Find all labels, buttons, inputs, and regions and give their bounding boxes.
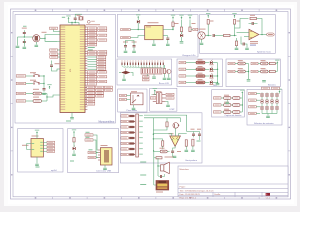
net label (port D out) — [104, 89, 112, 91]
wire jack l — [127, 95, 131, 97]
frame box: Boutons section — [226, 59, 280, 87]
wire feedback up — [235, 19, 249, 29]
LED D5 — [73, 146, 76, 150]
output net label SORTIE (rounded) — [267, 33, 275, 36]
wire IC2 stat — [163, 35, 168, 37]
S1 name — [30, 72, 36, 73]
frame column label 1 — [35, 10, 37, 11]
wire C10 gnd — [125, 49, 127, 51]
crystal Q1 — [79, 16, 83, 20]
VCC arrow mp3 — [35, 130, 39, 135]
wire usb shield gnd — [104, 165, 106, 168]
net label (XTAL alt) — [98, 53, 107, 55]
net text BATT — [140, 184, 146, 185]
header pin 7 — [129, 148, 135, 150]
resistor R42 — [233, 111, 240, 114]
wire led-rail 1 — [213, 68, 218, 70]
wire amp inner loop — [144, 118, 180, 122]
wire T1 down — [168, 74, 170, 78]
wire caps top — [126, 41, 135, 44]
junction — [248, 71, 249, 72]
ground usb — [103, 168, 107, 170]
IC4 right pin labels — [40, 141, 43, 144]
U7 value — [224, 109, 229, 110]
net label (port D low) — [87, 100, 95, 102]
wire cap lbl 1 — [221, 104, 224, 106]
resistor R60 — [160, 150, 167, 153]
R21 value — [198, 66, 203, 67]
frame box: Prise audio section — [118, 89, 147, 112]
usb d- text — [86, 137, 90, 138]
net label MISO — [166, 93, 174, 95]
resistor R11 — [33, 100, 42, 103]
capacitor C11 — [133, 43, 136, 48]
wire conf2 — [58, 56, 60, 58]
wire btn lbl 1 — [235, 71, 238, 73]
svg-text:Feuille :: Feuille : — [215, 194, 222, 196]
junction — [208, 35, 209, 36]
wire to op-amp + — [237, 32, 249, 34]
push button S1 — [33, 74, 40, 77]
LCD pin strip block — [141, 68, 162, 74]
amp input header strip J4 — [136, 114, 139, 157]
wire btn out2 0 — [268, 63, 269, 65]
wire crystal bottom — [69, 20, 80, 22]
junction — [157, 165, 158, 166]
ground R14 — [163, 78, 167, 80]
wire r64 gnd — [185, 146, 187, 149]
ground under C8 — [42, 93, 46, 95]
frame column label 7 — [241, 10, 243, 11]
LCD bus wires — [122, 65, 126, 68]
wire R4 top — [181, 20, 183, 27]
net label (port C alt) — [98, 80, 107, 82]
wire r65 gnd — [192, 146, 194, 150]
frame box: LED section — [177, 59, 222, 87]
ground mp3 — [35, 164, 39, 166]
net label (port D low) — [87, 103, 95, 105]
wire IC2 gnd — [153, 40, 155, 44]
wire cap mid 1 — [231, 104, 233, 106]
wire PB3 — [87, 63, 96, 65]
wire icsp l1 — [152, 94, 153, 96]
wire btn out 0 — [245, 63, 248, 65]
net label (port A) — [88, 34, 97, 36]
logo mark — [266, 193, 271, 196]
wire spk rail b — [157, 158, 159, 176]
net label (port A) — [88, 44, 97, 46]
net label BTN2 — [228, 70, 235, 72]
wire PB0 — [87, 56, 96, 58]
capacitor C23 — [171, 149, 174, 154]
VCC arrow icsp — [153, 88, 157, 93]
wire IC ground — [71, 113, 73, 118]
net label JACK R — [120, 98, 127, 100]
svg-text:Système micro: Système micro — [257, 50, 272, 53]
net label AMP1 — [121, 115, 128, 117]
wire vusb to IC2 — [130, 29, 144, 31]
net label AMP8 — [121, 153, 128, 155]
frame row label 1 — [11, 32, 12, 33]
wire capteur gnd stub — [226, 99, 228, 101]
wire c25 b — [162, 174, 165, 177]
resistor R63 — [162, 141, 164, 146]
wire mem lbl 1 — [256, 99, 260, 101]
header pin 1 — [129, 115, 135, 117]
junction — [43, 75, 44, 76]
net label TX/RX 0 — [16, 92, 26, 94]
battery BT1 — [156, 181, 169, 191]
VCC arrow mic — [206, 13, 210, 18]
IC U1 value text ATMEGA1284P — [86, 24, 100, 25]
net label (port D mid) — [96, 89, 104, 91]
net label USB GND — [88, 156, 96, 158]
R22 value — [198, 73, 203, 74]
gnd text usb — [70, 161, 74, 162]
frame row divider 1 — [11, 55, 14, 57]
wire mem lbl 3 — [256, 112, 260, 114]
net label BTN1 b — [251, 62, 258, 64]
VCC arrow r8 — [232, 13, 236, 18]
C10 value — [123, 42, 128, 43]
wire amp left rail — [152, 118, 154, 146]
net label VUSB — [121, 28, 131, 30]
net label AMP7 — [121, 148, 128, 150]
wire c21 stub — [193, 131, 195, 133]
resistor R6 — [207, 20, 209, 25]
resonator circle small — [87, 20, 94, 23]
ground R64 — [185, 150, 189, 152]
wire icsp gnd — [165, 102, 168, 105]
resistor R3 — [172, 22, 174, 27]
resistor R10 — [33, 92, 42, 95]
svg-text:Musicbox: Musicbox — [180, 169, 190, 171]
wire D2 down — [137, 23, 139, 30]
net label (port B) — [97, 66, 106, 68]
net label AMP3 — [121, 126, 128, 128]
wire R10 out — [42, 93, 48, 95]
J2 name — [156, 91, 162, 92]
VCC text left — [62, 17, 65, 18]
net label +BATT — [121, 36, 131, 38]
wire spk+ — [158, 165, 161, 167]
IC4 left pins — [32, 142, 35, 145]
op-amp IC3 MAX9812 — [249, 29, 259, 39]
wire lbl-res 0 — [186, 62, 196, 64]
IC3 text line2 — [250, 43, 258, 44]
net label (port D) — [87, 95, 95, 97]
ground under C12 — [166, 44, 170, 46]
resistor R62 — [166, 122, 168, 127]
wire trim left — [119, 72, 121, 74]
net text amp right — [197, 141, 201, 142]
wire r5-stat — [191, 29, 193, 31]
IC U1 ATmega1284P body — [60, 25, 85, 113]
wire btn lbl2 0 — [258, 63, 261, 65]
wire trim gnd — [123, 75, 125, 79]
wire trim right — [131, 73, 134, 77]
net label (port C) — [88, 83, 97, 85]
wire cap mid 0 — [231, 97, 233, 99]
wire lcd gnd stub — [147, 74, 149, 76]
wire usb dp — [93, 135, 98, 150]
svg-text:Haut-parleur: Haut-parleur — [186, 159, 198, 162]
wire rail to R60 — [153, 146, 160, 152]
MK1 name Microphone — [199, 29, 206, 30]
frame column label 2 — [69, 10, 71, 11]
capacitor C6 — [23, 39, 26, 44]
junction — [234, 35, 235, 36]
net label above memoire 2 — [272, 87, 280, 89]
wire serial join — [46, 94, 48, 102]
usb net text — [89, 149, 93, 150]
net label (port C) — [88, 78, 97, 80]
wire jack gnd — [133, 105, 135, 108]
ground icsp — [166, 105, 170, 107]
net label USB VCC — [88, 151, 96, 153]
net label USB D+ — [85, 134, 93, 136]
ground jack — [132, 108, 136, 110]
net label BTN1 — [228, 62, 235, 64]
resistor R31 — [269, 70, 275, 72]
ground memoire — [266, 116, 270, 118]
wire PB1 — [87, 58, 96, 60]
frame column divider 6 — [224, 9, 226, 12]
ground under C11 — [132, 51, 136, 53]
junction — [75, 22, 76, 23]
capacitor C5 — [23, 30, 26, 35]
wire buttons common — [43, 76, 45, 87]
C11 value — [132, 42, 137, 43]
header pin 4 — [129, 131, 135, 133]
net text SPK+ — [140, 162, 146, 163]
net label MP3 pin 1 — [47, 144, 55, 146]
IC3 text line3 — [250, 45, 256, 46]
junction — [138, 29, 139, 30]
resistor R7 — [224, 34, 231, 36]
net label (port D) — [87, 92, 95, 94]
wire c25 — [158, 175, 160, 178]
wire PB2 — [87, 61, 96, 63]
junction — [217, 75, 218, 76]
ground c16 — [245, 48, 249, 50]
VCC arrow buttons — [275, 60, 279, 65]
net label (port C alt) — [98, 71, 107, 73]
frame column divider 2 — [86, 9, 88, 12]
wire caps top — [187, 131, 200, 133]
wire mic gnd — [201, 39, 203, 42]
net label (port B) — [97, 68, 106, 70]
schematic frame outer border — [11, 9, 291, 199]
C2 value 22p — [77, 15, 81, 16]
wire op-amp out — [260, 34, 267, 36]
net label AMP4 — [121, 131, 128, 133]
wire spk rail a — [153, 150, 155, 185]
IC2 name MCP73831 — [148, 22, 159, 23]
wire lbl-res 1 — [186, 68, 196, 70]
D12 name — [210, 78, 214, 79]
net label CAP3 — [213, 111, 221, 113]
ground C23 — [173, 156, 177, 158]
net label (port A) — [88, 32, 97, 34]
wire reset to IC — [54, 30, 61, 32]
net text SPK- — [140, 175, 146, 176]
junction — [71, 22, 72, 23]
wire res-led 1 — [205, 68, 209, 70]
junction — [217, 82, 218, 83]
resistor R21 (dark pill) — [196, 68, 205, 71]
wire cap out 2 — [240, 111, 242, 113]
wire mem lbl 0 — [256, 93, 260, 95]
wire vcc icsp — [155, 93, 157, 95]
junction — [44, 38, 45, 39]
wire resonator left — [18, 36, 33, 38]
ground led usb — [72, 154, 76, 156]
net label MP3 pin 3 — [47, 150, 55, 152]
wire lbl-res 2 — [186, 75, 196, 77]
net label (port A alt) — [98, 39, 107, 41]
ground capteur row1 — [226, 102, 230, 104]
net label (port C) — [88, 73, 97, 75]
frame column divider 3 — [121, 9, 123, 12]
wire cap mid 2 — [231, 111, 233, 113]
ground left of resonator — [16, 46, 20, 48]
wire vbus — [73, 134, 75, 137]
net label AMP6 — [121, 142, 128, 144]
wire R6 down — [207, 24, 209, 35]
capacitor C21 — [192, 132, 195, 137]
header pin 5 — [129, 137, 135, 139]
frame column divider 1 — [52, 9, 54, 12]
wire R5 top — [189, 20, 191, 27]
push button S2 — [33, 81, 40, 84]
wire mp3 vcc — [36, 135, 38, 139]
wire C11 gnd — [133, 49, 135, 51]
amplifier IC5 LM386 (triangle) — [170, 136, 181, 146]
wire mic out — [205, 35, 211, 37]
wire label to S2 — [26, 83, 33, 85]
LED D10 — [210, 60, 213, 64]
net label (XTAL alt) — [98, 51, 107, 53]
frame row divider 3 — [11, 150, 14, 152]
R6 value — [210, 21, 214, 22]
wire C7 top — [51, 61, 53, 63]
LCD header pins row — [122, 62, 123, 65]
net label (port C) — [88, 71, 97, 73]
microphone MK1 — [198, 32, 205, 39]
net label (port A) — [88, 39, 97, 41]
wire tri in- hookup — [179, 134, 187, 136]
wire mem lbl 2 — [256, 106, 260, 108]
wire resonator to IC pin a — [40, 35, 58, 39]
R5 value — [192, 23, 196, 24]
wire LED down — [181, 37, 183, 41]
resistor R14 — [163, 69, 165, 74]
wire mem gnd stub — [267, 114, 269, 116]
LED D12 — [210, 73, 213, 77]
wire to C6 — [23, 39, 25, 44]
wire R3 down — [172, 27, 174, 30]
ground LCD strip — [152, 77, 156, 79]
usb d+ text — [86, 132, 90, 133]
resistor R8 — [233, 20, 235, 25]
VCC arrow near buttons — [47, 84, 51, 89]
capacitor C10 — [124, 43, 127, 48]
ground under IC2 — [152, 44, 156, 46]
VBUS arrow — [72, 129, 76, 134]
frame column label 6 — [207, 10, 209, 11]
wire R4 to LED — [181, 32, 183, 34]
capacitor C12 — [166, 36, 169, 41]
resistor R61 — [156, 157, 162, 159]
frame box: Systeme Micro section — [200, 15, 276, 54]
header pin 3 — [129, 126, 135, 128]
resistor R41 — [233, 104, 240, 107]
IC5 name LM386 — [169, 133, 174, 134]
X1 name — [101, 145, 108, 146]
resistor R64 — [185, 140, 187, 146]
wire mp3 l2 — [29, 149, 31, 151]
wire batt — [154, 184, 156, 186]
R11 value — [33, 97, 39, 98]
wire tri out down — [173, 146, 176, 149]
net label LED3 — [179, 75, 186, 77]
wire res-led 3 — [205, 81, 209, 83]
wire resonator gnd — [35, 42, 37, 45]
net label (port D out) — [104, 86, 112, 88]
Y1 value — [22, 28, 27, 29]
D13 name — [210, 84, 214, 85]
wire op-amp minus down — [241, 37, 243, 45]
wire btn rail — [248, 64, 250, 80]
IC2 pin text — [146, 26, 151, 27]
capacitor C15 — [252, 22, 254, 25]
capacitor C22 — [198, 132, 201, 137]
junction — [261, 34, 262, 35]
net label LED2 — [179, 68, 186, 70]
wire LED common rail — [217, 63, 219, 83]
net label (port D) — [87, 86, 95, 88]
wire c22 down — [199, 137, 201, 140]
wire btn lbl2 1 — [258, 71, 261, 73]
C7 value 100nF — [55, 62, 61, 65]
ground LED rail — [216, 83, 220, 85]
net label MOSI — [166, 97, 174, 99]
ground under Y1 — [35, 45, 39, 47]
wire to R10 — [26, 93, 33, 95]
net label (port C alt) — [98, 76, 107, 78]
U6 value — [224, 102, 229, 103]
speaker LS1 — [161, 162, 170, 173]
wire res-led 0 — [205, 62, 209, 64]
net label BTN2 b — [251, 70, 258, 72]
component U6 — [224, 104, 231, 107]
frame box: Chargeur LiPo section — [117, 15, 198, 58]
Q2 value text — [42, 32, 47, 33]
capacitor C14 — [213, 34, 215, 37]
net label CAP1 — [213, 97, 221, 99]
frame box: ICSP section — [150, 88, 177, 111]
switch S4 — [238, 70, 246, 73]
junction — [172, 29, 173, 30]
header pin 6 — [129, 142, 135, 144]
BT1 text — [156, 192, 163, 193]
resistor R65 — [192, 139, 194, 146]
ground under C10 — [124, 51, 128, 53]
wire q6 down — [175, 128, 177, 131]
component U7 — [224, 111, 231, 114]
ground under C6 — [23, 47, 27, 49]
